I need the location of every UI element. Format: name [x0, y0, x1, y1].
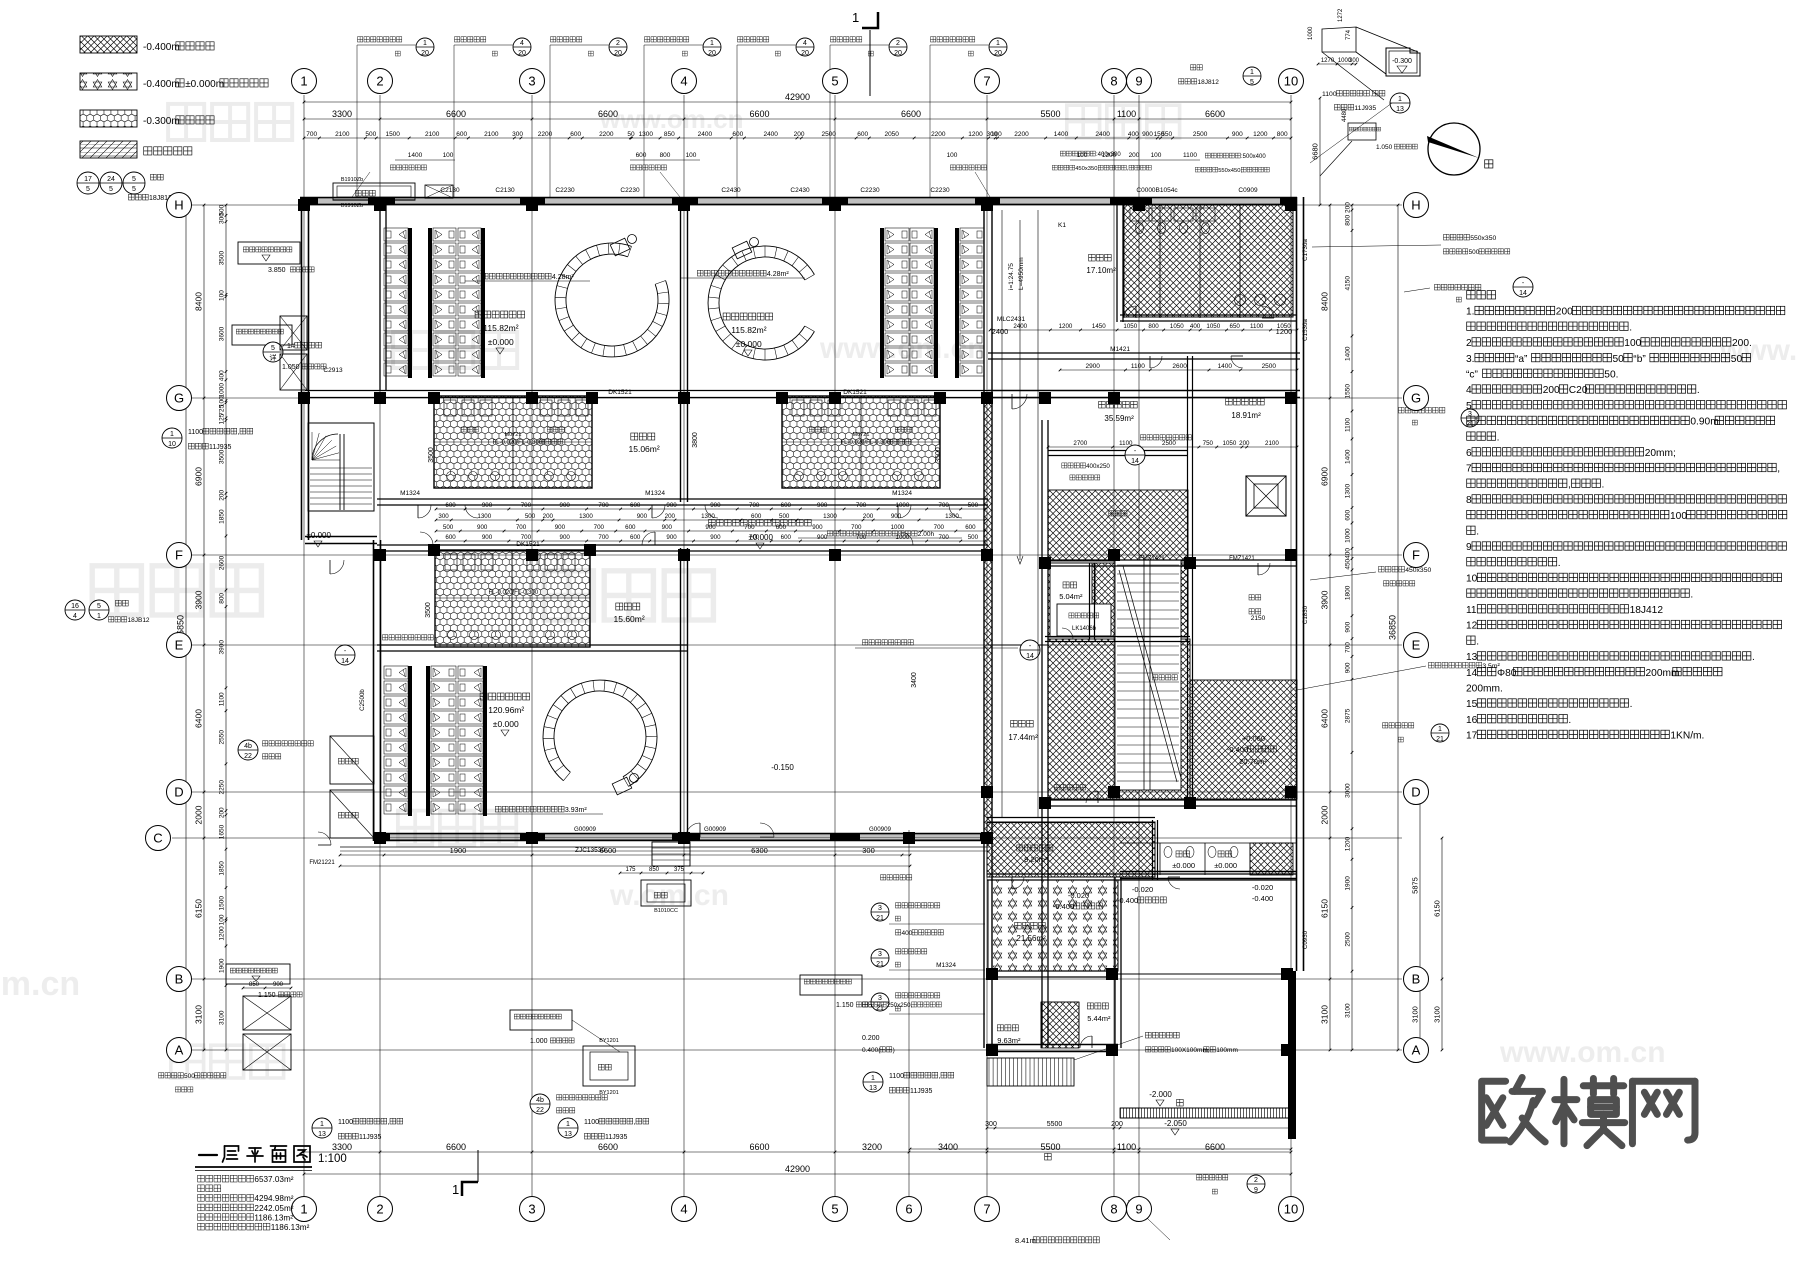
svg-text:1.150: 1.150 — [258, 992, 276, 999]
svg-text:600: 600 — [456, 131, 467, 138]
svg-text:C2230: C2230 — [555, 187, 575, 194]
svg-text:F: F — [1412, 548, 1420, 563]
svg-text:“b”: “b” — [1633, 354, 1646, 365]
svg-text:200: 200 — [1556, 307, 1573, 318]
svg-text:5: 5 — [271, 345, 275, 352]
svg-text:1100: 1100 — [584, 1119, 599, 1126]
svg-text:4: 4 — [520, 40, 524, 47]
interior walls right wing — [1116, 197, 1118, 322]
svg-text:6600: 6600 — [446, 1142, 466, 1152]
svg-text:1:100: 1:100 — [318, 1153, 347, 1165]
svg-text:详: 详 — [270, 353, 277, 362]
section mark 1 top — [862, 12, 878, 28]
svg-text:5500: 5500 — [1040, 1142, 1060, 1152]
svg-text:1050: 1050 — [1170, 323, 1184, 330]
svg-text:600: 600 — [781, 534, 792, 541]
svg-text:4.28m²: 4.28m² — [552, 274, 574, 281]
svg-text:9: 9 — [1254, 1187, 1258, 1194]
svg-text:B: B — [175, 972, 184, 987]
svg-text:1500: 1500 — [219, 896, 226, 911]
svg-text:2600: 2600 — [219, 555, 226, 570]
notes text block — [1467, 291, 1475, 299]
svg-text:14: 14 — [341, 658, 349, 665]
svg-text:900: 900 — [1142, 131, 1153, 138]
bath fixtures block2 — [792, 400, 804, 416]
svg-text:1400: 1400 — [1345, 449, 1352, 464]
svg-text:1300: 1300 — [579, 513, 593, 520]
svg-text:9.63m²: 9.63m² — [997, 1036, 1021, 1045]
svg-text:3500: 3500 — [218, 449, 225, 464]
svg-text:14: 14 — [1466, 668, 1478, 679]
svg-text:1800: 1800 — [1344, 585, 1351, 600]
svg-text:100: 100 — [218, 290, 225, 301]
svg-text:850: 850 — [664, 131, 675, 138]
svg-text:5: 5 — [1466, 401, 1472, 412]
interior walls left block — [379, 205, 381, 390]
svg-text:1300: 1300 — [823, 513, 837, 520]
rooms south wall above corridor — [377, 498, 988, 500]
svg-text:2600: 2600 — [1172, 363, 1187, 370]
svg-text:100: 100 — [1151, 152, 1162, 159]
svg-text:600: 600 — [965, 524, 976, 531]
svg-text:500: 500 — [1469, 249, 1480, 256]
svg-text:2400: 2400 — [992, 327, 1009, 336]
svg-text:800: 800 — [660, 152, 671, 159]
svg-text:G00909: G00909 — [704, 826, 727, 833]
svg-text:22: 22 — [536, 1107, 544, 1114]
svg-text:.: . — [1697, 385, 1700, 396]
svg-text:900: 900 — [705, 524, 716, 531]
svg-text:50: 50 — [627, 131, 635, 138]
right top 6680 — [1319, 98, 1321, 205]
svg-text:800: 800 — [219, 593, 226, 604]
svg-text:17: 17 — [84, 176, 92, 183]
stair well white — [1115, 560, 1181, 790]
svg-text:1200: 1200 — [1253, 131, 1268, 138]
svg-text:DK1521: DK1521 — [516, 541, 540, 548]
svg-text:100: 100 — [947, 152, 958, 159]
svg-text:20: 20 — [708, 50, 716, 57]
svg-text:400: 400 — [1344, 548, 1351, 559]
svg-text:MLC2431: MLC2431 — [997, 316, 1026, 323]
svg-text:900: 900 — [666, 534, 677, 541]
svg-text:1: 1 — [1250, 69, 1254, 76]
svg-text:M1324: M1324 — [645, 490, 665, 497]
svg-text:5: 5 — [97, 603, 101, 610]
svg-text:2550: 2550 — [219, 730, 226, 745]
svg-text:550: 550 — [1161, 131, 1172, 138]
svg-text:5: 5 — [132, 176, 136, 183]
svg-text:13: 13 — [1396, 106, 1404, 113]
svg-text:120.96m²: 120.96m² — [488, 705, 524, 715]
hatch bath3 honeycomb — [435, 550, 590, 647]
roof box 3 lower-left — [226, 964, 290, 984]
svg-text:200: 200 — [863, 513, 874, 520]
svg-text:.: . — [1690, 589, 1693, 600]
svg-text:1186.13m²: 1186.13m² — [271, 1223, 310, 1232]
stair1 callout — [263, 342, 283, 362]
svg-text:3100: 3100 — [1433, 1006, 1442, 1023]
hatch bath1 honeycomb — [434, 396, 592, 488]
svg-text:900: 900 — [1345, 621, 1352, 632]
svg-text:8400: 8400 — [1320, 292, 1330, 311]
svg-text:36850: 36850 — [1388, 615, 1398, 640]
svg-text:600: 600 — [1345, 509, 1352, 520]
svg-text:700: 700 — [598, 534, 609, 541]
svg-text:ZJC13530: ZJC13530 — [575, 847, 605, 854]
svg-text:800: 800 — [1148, 323, 1159, 330]
svg-text:C20: C20 — [1569, 385, 1588, 396]
svg-text:1100: 1100 — [1250, 323, 1264, 330]
svg-text:5: 5 — [831, 74, 838, 89]
svg-text:-2.050: -2.050 — [1164, 1119, 1187, 1128]
svg-text:4: 4 — [680, 1202, 687, 1217]
svg-text:C: C — [153, 831, 162, 846]
svg-text:6600: 6600 — [598, 109, 618, 119]
svg-text:900: 900 — [637, 513, 648, 520]
svg-text:-2.000: -2.000 — [1149, 1090, 1172, 1099]
aircon callouts right wing west edge — [871, 903, 889, 921]
svg-text:6150: 6150 — [1320, 899, 1330, 918]
svg-text:600: 600 — [445, 534, 456, 541]
svg-text:2150: 2150 — [1251, 615, 1266, 622]
svg-text:1272: 1272 — [1338, 8, 1344, 22]
svg-text:2000: 2000 — [1320, 805, 1330, 824]
svg-text:100X100mm,: 100X100mm, — [1171, 1047, 1210, 1054]
corridor dim row extra — [436, 530, 985, 532]
svg-text:6150: 6150 — [194, 899, 204, 918]
svg-text:2100: 2100 — [335, 131, 350, 138]
svg-text:2100: 2100 — [484, 131, 499, 138]
svg-text:1: 1 — [300, 1202, 307, 1217]
svg-text:3900: 3900 — [194, 590, 204, 609]
svg-text:3800: 3800 — [692, 432, 699, 448]
svg-text:115.82m²: 115.82m² — [483, 323, 518, 333]
svg-text:1000: 1000 — [1344, 528, 1351, 543]
svg-text:2: 2 — [616, 40, 620, 47]
svg-text:500: 500 — [184, 1073, 195, 1080]
roof access box top-left — [238, 242, 300, 264]
svg-text:200: 200 — [1239, 440, 1250, 447]
E row wall lower block — [377, 644, 688, 646]
kitchen west wall — [1041, 420, 1043, 1048]
bed array U2 — [428, 228, 432, 378]
svg-text:0.90m: 0.90m — [1690, 417, 1718, 428]
svg-text:6600: 6600 — [446, 109, 466, 119]
svg-text:3200: 3200 — [862, 1142, 882, 1152]
entrance porch bottom center — [652, 842, 690, 866]
svg-text:C2230: C2230 — [930, 187, 950, 194]
svg-text:-0.400: -0.400 — [1227, 745, 1248, 754]
svg-text:5500: 5500 — [1040, 109, 1060, 119]
fire entrance labels — [390, 165, 395, 170]
svg-text:1300: 1300 — [477, 513, 491, 520]
svg-text:20: 20 — [614, 50, 622, 57]
elevator — [1246, 476, 1286, 516]
splice callout — [1191, 65, 1196, 70]
svg-text:±0.000: ±0.000 — [488, 337, 514, 347]
elec shaft room white — [1050, 563, 1092, 637]
right lower 5875/6150/3100 — [1419, 792, 1421, 1050]
svg-text:200: 200 — [218, 490, 225, 501]
stair 1 (left, fan) — [308, 423, 374, 511]
svg-text:50.: 50. — [1604, 370, 1618, 381]
kitchen crosshatch swath — [1048, 490, 1188, 561]
svg-text:1900: 1900 — [1344, 876, 1351, 891]
legend — [80, 36, 137, 53]
svg-text:300: 300 — [512, 131, 523, 138]
svg-text:900: 900 — [555, 524, 566, 531]
svg-text:16: 16 — [71, 603, 79, 610]
svg-text:C2130: C2130 — [495, 187, 515, 194]
svg-text:C1530a: C1530a — [1302, 319, 1309, 341]
svg-text:1200: 1200 — [1276, 327, 1293, 336]
svg-text:17.44m²: 17.44m² — [1008, 733, 1038, 742]
svg-text:900: 900 — [560, 534, 571, 541]
svg-text:-0.020: -0.020 — [1068, 891, 1089, 900]
roof box 4 (center bottom) — [510, 1010, 572, 1030]
svg-text:1550: 1550 — [1345, 384, 1352, 399]
svg-text:±0.000: ±0.000 — [736, 339, 762, 349]
svg-text:4: 4 — [73, 613, 77, 620]
svg-text:200mm.: 200mm. — [1466, 684, 1503, 695]
svg-text:11J935: 11J935 — [209, 444, 232, 451]
svg-text:,: , — [939, 1073, 941, 1080]
bottom dimension overall — [304, 1173, 1291, 1175]
outer wall right wing east — [1296, 197, 1298, 971]
svg-text:100: 100 — [1670, 511, 1687, 522]
svg-text:17.10m²: 17.10m² — [1086, 266, 1116, 275]
wind shaft callout left — [238, 740, 258, 760]
porch line below left block — [340, 846, 990, 848]
svg-text:125: 125 — [218, 413, 225, 424]
svg-text:2500: 2500 — [1162, 440, 1176, 447]
svg-text:3: 3 — [878, 995, 882, 1002]
svg-text:600: 600 — [776, 524, 787, 531]
svg-text:2200: 2200 — [1014, 131, 1029, 138]
svg-text:13: 13 — [564, 1131, 572, 1138]
svg-text:9.20m²: 9.20m² — [1024, 855, 1048, 864]
svg-text:6900: 6900 — [1320, 467, 1330, 486]
svg-text:2400: 2400 — [698, 131, 713, 138]
svg-text:8400: 8400 — [194, 292, 204, 311]
truss note — [1146, 1032, 1152, 1038]
svg-text:200: 200 — [1543, 385, 1560, 396]
svg-text:200: 200 — [1129, 152, 1140, 159]
svg-text:+0.060: +0.060 — [1242, 734, 1265, 743]
svg-text:7: 7 — [1466, 464, 1472, 475]
svg-text:1300: 1300 — [639, 131, 654, 138]
svg-text:1186.13m²: 1186.13m² — [254, 1213, 293, 1222]
title stats — [198, 1175, 205, 1182]
roof box 2 — [232, 325, 292, 345]
svg-text:200: 200 — [1344, 202, 1351, 213]
toilet stalls top right — [1130, 208, 1149, 221]
svg-text:18.91m²: 18.91m² — [1231, 411, 1261, 420]
svg-text:20: 20 — [801, 50, 809, 57]
svg-text:200: 200 — [665, 513, 676, 520]
bed array U3 — [880, 228, 884, 378]
bath fixtures block1 — [444, 400, 456, 416]
svg-text:4: 4 — [1466, 385, 1472, 396]
svg-text:9: 9 — [1135, 1202, 1142, 1217]
svg-text:24: 24 — [107, 176, 115, 183]
svg-text:700: 700 — [1344, 642, 1351, 653]
right dimension details — [1351, 205, 1353, 1050]
svg-text:1300: 1300 — [1344, 484, 1351, 499]
svg-text:3.93m²: 3.93m² — [565, 807, 587, 814]
svg-text:1: 1 — [423, 40, 427, 47]
svg-text:-0.400m: -0.400m — [143, 42, 180, 53]
svg-text:1000: 1000 — [891, 524, 905, 531]
svg-text:3: 3 — [878, 951, 882, 958]
svg-text:42900: 42900 — [785, 1164, 810, 1174]
svg-text:200mm: 200mm — [1646, 668, 1680, 679]
svg-text:-0.020: -0.020 — [1132, 885, 1153, 894]
svg-text:11: 11 — [1466, 605, 1477, 616]
corridor dim strings — [436, 508, 985, 510]
svg-text:18J412: 18J412 — [1630, 605, 1664, 616]
svg-text:13: 13 — [1466, 652, 1478, 663]
svg-text:.: . — [1752, 652, 1755, 663]
svg-text:2500: 2500 — [1345, 932, 1352, 947]
svg-text:20: 20 — [894, 50, 902, 57]
svg-text:100: 100 — [218, 914, 225, 925]
svg-text:±0.000: ±0.000 — [749, 533, 774, 542]
supply air shafts left mid — [330, 736, 374, 784]
left dimension majors — [203, 205, 205, 1050]
svg-text:500: 500 — [779, 513, 790, 520]
svg-text:22: 22 — [244, 753, 252, 760]
curved wall arc room2 — [719, 257, 805, 349]
svg-text:2200: 2200 — [931, 131, 946, 138]
svg-text:14: 14 — [1519, 290, 1527, 297]
svg-text:-0.400: -0.400 — [1053, 902, 1074, 911]
svg-text:3: 3 — [878, 905, 882, 912]
outer wall bottom of left block — [374, 833, 990, 835]
svg-text:400x250: 400x250 — [1086, 463, 1110, 470]
svg-text:LK1406b: LK1406b — [1072, 626, 1097, 632]
outer wall top — [300, 197, 1297, 199]
svg-text:900: 900 — [710, 534, 721, 541]
svg-text:.: . — [1568, 715, 1571, 726]
smoke area labels — [482, 273, 488, 279]
svg-text:M1324: M1324 — [936, 962, 956, 969]
svg-text:8: 8 — [1110, 1202, 1117, 1217]
west wall of right wing corridor — [983, 197, 985, 1048]
svg-text:115.82m²: 115.82m² — [731, 325, 766, 335]
svg-text:2500: 2500 — [1262, 363, 1277, 370]
svg-text:2400: 2400 — [1013, 323, 1027, 330]
svg-text:900: 900 — [482, 534, 493, 541]
svg-text:700: 700 — [851, 524, 862, 531]
title: floor plan glyphs — [199, 1154, 217, 1156]
svg-text:11J935: 11J935 — [359, 1134, 382, 1141]
svg-text:E: E — [175, 638, 184, 653]
svg-text:6600: 6600 — [749, 1142, 769, 1152]
svg-text:9: 9 — [1466, 542, 1472, 553]
svg-text:B: B — [1412, 972, 1421, 987]
svg-text:6: 6 — [905, 1202, 912, 1217]
svg-text:6150: 6150 — [1433, 900, 1442, 917]
svg-text:.: . — [1630, 699, 1633, 710]
svg-text:1900: 1900 — [218, 958, 225, 973]
svg-text:200.: 200. — [1732, 338, 1752, 349]
svg-text:900: 900 — [477, 524, 488, 531]
svg-text:500: 500 — [365, 131, 376, 138]
svg-text:3: 3 — [528, 74, 535, 89]
svg-text:H: H — [174, 198, 183, 213]
svg-text:3500: 3500 — [219, 250, 226, 265]
grid bubbles bottom — [292, 1197, 317, 1222]
svg-text:0.200: 0.200 — [862, 1035, 880, 1042]
svg-text:900: 900 — [273, 982, 284, 988]
svg-text:20: 20 — [421, 50, 429, 57]
svg-text:2050: 2050 — [884, 131, 899, 138]
svg-text:1270: 1270 — [1321, 58, 1335, 64]
svg-text:20: 20 — [994, 50, 1002, 57]
bottom wall piers — [374, 834, 390, 841]
svg-text:4b: 4b — [244, 743, 252, 750]
svg-text:2400: 2400 — [763, 131, 778, 138]
wind shaft near grid4 bottom — [641, 880, 691, 906]
top detail callouts — [358, 37, 363, 42]
svg-text:C2500b: C2500b — [359, 689, 366, 711]
svg-text:6537.03m²: 6537.03m² — [254, 1175, 293, 1184]
room labels — [475, 311, 482, 318]
svg-text:L=4950mm: L=4950mm — [1018, 257, 1025, 290]
right thick wall fill — [1288, 971, 1296, 1139]
vent shaft left-bottom outbuilding — [243, 996, 291, 1030]
svg-text:750: 750 — [1203, 440, 1214, 447]
movement joint hatched wall — [984, 398, 992, 840]
svg-text:2: 2 — [896, 40, 900, 47]
bottom dimension majors — [304, 1151, 1291, 1153]
svg-text:774: 774 — [1346, 29, 1352, 40]
right dimension overall — [1397, 205, 1399, 1050]
svg-text:-0.150: -0.150 — [771, 763, 794, 772]
svg-text:3600: 3600 — [218, 326, 225, 341]
svg-text:900: 900 — [662, 524, 673, 531]
svg-text:600: 600 — [732, 131, 743, 138]
svg-text:G: G — [174, 391, 184, 406]
svg-text:3.: 3. — [1466, 354, 1475, 365]
svg-text:1000: 1000 — [1308, 26, 1314, 40]
svg-text:.: . — [1558, 558, 1561, 569]
svg-text:13: 13 — [318, 1131, 326, 1138]
svg-text:,: , — [388, 1119, 390, 1126]
svg-text:1400: 1400 — [408, 152, 423, 159]
svg-text:M0721: M0721 — [853, 432, 870, 438]
top dimension details — [304, 137, 1291, 139]
svg-text:C2430: C2430 — [721, 187, 741, 194]
svg-text:10: 10 — [1466, 574, 1478, 585]
svg-text:5: 5 — [86, 186, 90, 193]
bath fixtures block3 — [445, 554, 457, 570]
svg-text:3100: 3100 — [1411, 1006, 1420, 1023]
svg-text:4.28m²: 4.28m² — [767, 271, 789, 278]
svg-text:8: 8 — [1110, 74, 1117, 89]
svg-text:650: 650 — [1230, 323, 1241, 330]
railing callout bottom (x2) — [312, 1118, 332, 1138]
bed array L1 — [384, 666, 408, 679]
louver note left bottom — [159, 1073, 164, 1078]
svg-text:700: 700 — [521, 534, 532, 541]
svg-text:100: 100 — [686, 152, 697, 159]
svg-text:21.56m²: 21.56m² — [1016, 934, 1046, 943]
svg-text:1: 1 — [996, 40, 1000, 47]
fan room star pattern — [988, 880, 1118, 971]
